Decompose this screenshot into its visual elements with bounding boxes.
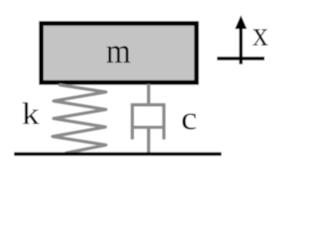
damper cylinder cup [132,105,164,140]
ground line [14,152,222,156]
mass block M [41,23,196,82]
arrow head [235,15,247,29]
damper piston [131,126,165,129]
damper rod top [147,84,150,105]
label k [23,102,40,124]
reference datum line [217,57,265,60]
arrow shaft [239,26,242,64]
spring k [53,85,107,153]
label x [253,29,268,45]
label c [182,114,196,130]
label m [107,46,131,62]
damper rod bottom [147,127,150,154]
